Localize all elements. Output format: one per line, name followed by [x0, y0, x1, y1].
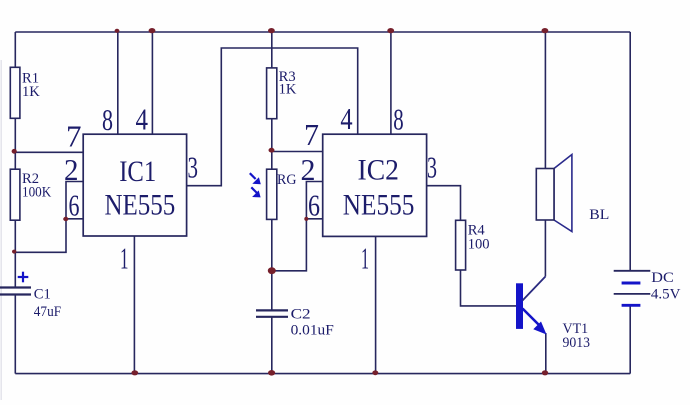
svg-text:NE555: NE555 [105, 189, 176, 222]
svg-text:C2: C2 [291, 306, 311, 322]
svg-text:1: 1 [120, 241, 129, 276]
svg-text:9013: 9013 [563, 335, 591, 351]
svg-text:3: 3 [427, 150, 437, 185]
svg-text:NE555: NE555 [343, 189, 415, 222]
svg-text:4: 4 [136, 102, 149, 137]
svg-text:47uF: 47uF [34, 304, 61, 320]
svg-text:7: 7 [304, 117, 319, 152]
svg-text:DC: DC [651, 270, 674, 286]
svg-text:6: 6 [69, 188, 80, 223]
svg-text:100: 100 [468, 236, 490, 252]
svg-text:IC2: IC2 [358, 154, 399, 187]
svg-text:1K: 1K [279, 82, 297, 98]
svg-text:RG: RG [277, 172, 297, 188]
svg-text:IC1: IC1 [119, 155, 156, 188]
svg-text:4.5V: 4.5V [651, 286, 681, 302]
svg-text:4: 4 [340, 101, 353, 136]
svg-text:BL: BL [589, 207, 609, 223]
svg-text:1K: 1K [22, 84, 40, 100]
svg-text:C1: C1 [34, 287, 51, 303]
svg-text:7: 7 [66, 119, 82, 154]
svg-text:1: 1 [361, 241, 369, 276]
svg-text:0.01uF: 0.01uF [291, 322, 334, 338]
svg-text:2: 2 [64, 152, 79, 187]
svg-text:2: 2 [301, 152, 316, 187]
svg-text:6: 6 [308, 188, 320, 223]
svg-text:3: 3 [188, 150, 199, 185]
svg-text:8: 8 [102, 102, 113, 137]
svg-text:100K: 100K [22, 184, 52, 200]
svg-text:8: 8 [393, 102, 403, 137]
